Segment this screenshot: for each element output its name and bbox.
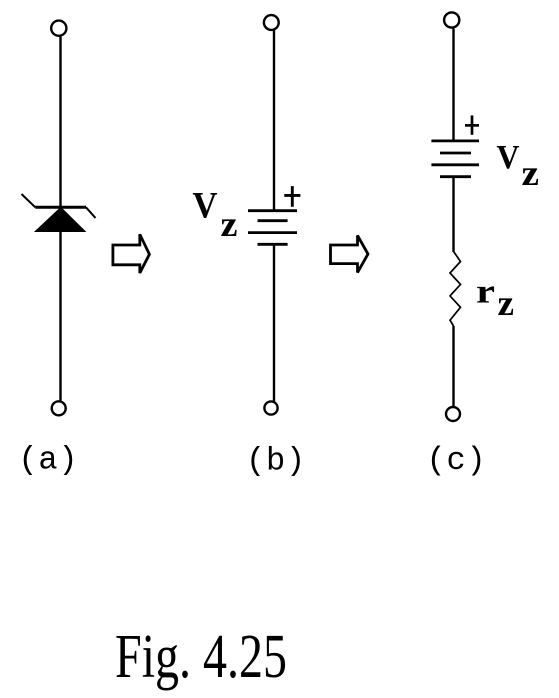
battery Vz of (c): plate 2 short — [440, 152, 471, 155]
svg-text:z: z — [498, 283, 515, 323]
svg-text:Fig. 4.25: Fig. 4.25 — [115, 623, 287, 691]
svg-text:z: z — [221, 204, 238, 244]
terminal circle, top of (a) — [51, 21, 66, 36]
svg-text:V: V — [497, 139, 520, 176]
zener diode anode triangle — [35, 208, 85, 232]
wire: (b) top terminal to battery — [273, 31, 275, 211]
battery Vz of (b): plate 2 short — [258, 219, 288, 222]
terminal circle, top of (c) — [444, 12, 459, 27]
resistor rz zigzag — [450, 252, 461, 327]
label Vz of (b) — [193, 185, 238, 245]
label Vz of (c) — [497, 139, 540, 193]
wire: battery to resistor in (c) — [452, 177, 454, 252]
battery Vz of (b): plate 3 long — [248, 231, 297, 234]
wire: (c) top terminal to battery — [452, 29, 454, 142]
svg-text:(b): (b) — [246, 443, 306, 480]
block arrow (a) to (b) — [113, 234, 149, 273]
battery plus sign (b) — [284, 186, 300, 207]
zener diode cathode bar — [35, 206, 86, 209]
svg-text:(c): (c) — [427, 442, 487, 479]
battery Vz of (c): plate 4 short — [440, 175, 471, 178]
wire: battery to (b) bottom terminal — [273, 245, 275, 402]
terminal circle, bottom of (c) — [446, 407, 460, 421]
zener bar right bent tail — [86, 207, 96, 218]
svg-text:(a): (a) — [18, 442, 78, 479]
wire: resistor to (c) bottom terminal — [452, 326, 454, 407]
block arrow (b) to (c) — [331, 236, 369, 273]
battery Vz of (b): plate 4 short — [258, 243, 288, 246]
svg-text:V: V — [193, 185, 218, 226]
battery Vz of (c): plate 1 long — [431, 139, 479, 142]
terminal circle, bottom of (a) — [52, 401, 66, 415]
battery Vz of (c): plate 3 long — [431, 163, 479, 166]
wire: (a) top terminal to zener cathode — [59, 37, 61, 208]
wire: zener anode to (a) bottom terminal — [59, 231, 61, 401]
terminal circle, bottom of (b) — [264, 401, 277, 414]
svg-text:z: z — [522, 153, 540, 193]
battery Vz of (b): plate 1 long — [248, 209, 297, 212]
svg-text:r: r — [476, 274, 495, 311]
battery plus sign (c) — [465, 115, 479, 134]
zener bar left bent tail — [22, 194, 36, 207]
label rz — [476, 274, 514, 323]
terminal circle, top of (b) — [264, 15, 279, 30]
